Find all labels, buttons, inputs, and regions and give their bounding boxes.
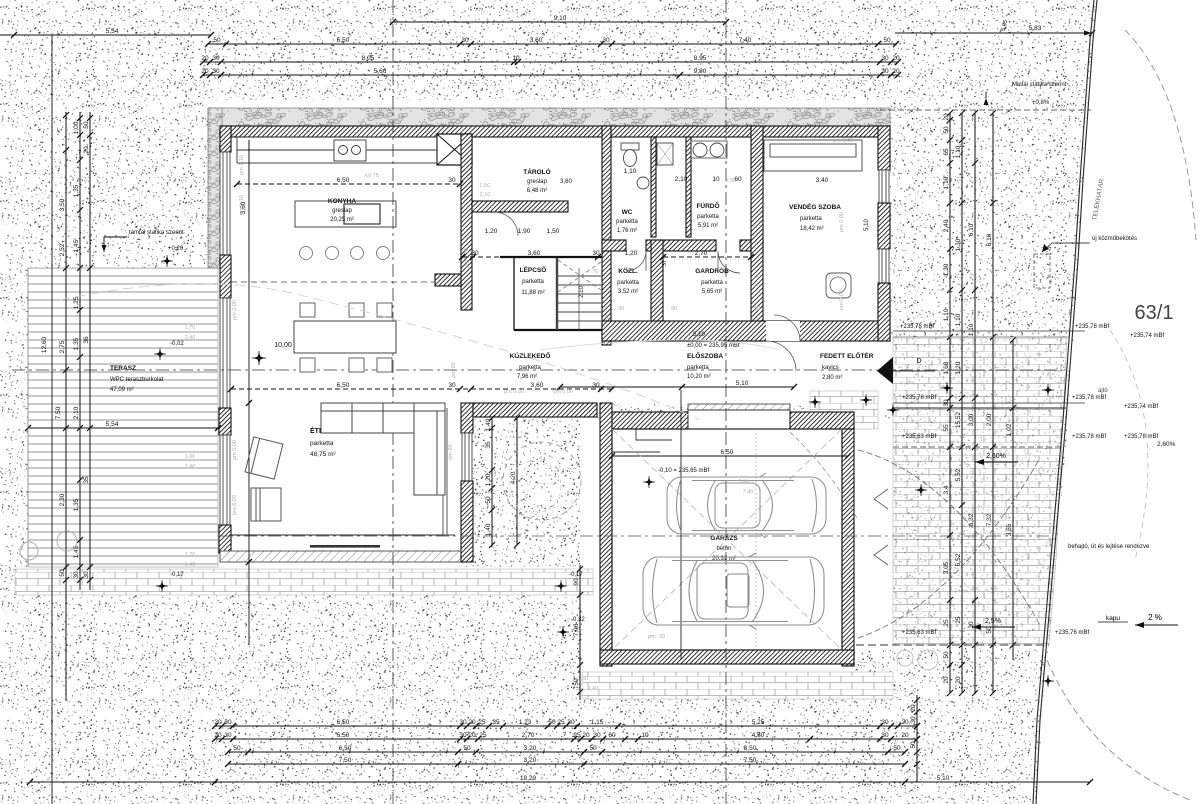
svg-text:60: 60 — [608, 732, 616, 739]
svg-text:+235,78 mBf: +235,78 mBf — [1072, 434, 1107, 440]
svg-text:pm 1,40: pm 1,40 — [833, 138, 853, 144]
svg-text:3,60: 3,60 — [560, 179, 572, 185]
svg-text:parketta: parketta — [687, 365, 709, 371]
svg-text:10: 10 — [712, 176, 720, 183]
svg-text:2,10: 2,10 — [73, 406, 80, 419]
east wall lower — [878, 283, 890, 341]
svg-text:11,88 m²: 11,88 m² — [521, 290, 544, 296]
property line — [1033, 0, 1097, 804]
svg-text:2,40: 2,40 — [185, 464, 196, 470]
svg-text:1,40: 1,40 — [485, 523, 492, 536]
north stone band — [208, 108, 890, 126]
svg-text:5,10: 5,10 — [736, 380, 749, 387]
courtyard chain1 — [485, 415, 495, 548]
right chain x1013 — [1006, 337, 1016, 660]
svg-text:3,60: 3,60 — [530, 37, 543, 44]
svg-text:6,48 m²: 6,48 m² — [527, 188, 547, 194]
svg-text:20: 20 — [201, 68, 209, 75]
svg-text:20: 20 — [910, 704, 917, 712]
svg-text:1,25: 1,25 — [73, 296, 80, 309]
svg-text:20: 20 — [955, 676, 962, 684]
svg-text:pm 0,00: pm 0,00 — [839, 212, 845, 232]
svg-text:kavics: kavics — [822, 365, 839, 371]
svg-text:1,15: 1,15 — [591, 719, 604, 726]
svg-text:1,10: 1,10 — [943, 176, 950, 189]
svg-text:5,60: 5,60 — [374, 68, 387, 75]
kitchen island — [295, 201, 396, 227]
garage door slab — [688, 404, 790, 410]
svg-text:5,10: 5,10 — [693, 332, 705, 338]
svg-text:+235,78 mBf: +235,78 mBf — [900, 324, 935, 330]
svg-text:50: 50 — [883, 37, 891, 44]
svg-text:30: 30 — [83, 571, 90, 579]
north wall — [220, 126, 890, 137]
kitchen west counter — [248, 140, 250, 272]
left chain x80 — [73, 112, 83, 590]
svg-text:3,60: 3,60 — [528, 250, 541, 257]
svg-text:30: 30 — [448, 177, 456, 184]
stair top wall line — [500, 256, 602, 258]
wc toilet — [621, 143, 639, 167]
2% arrow bottom right — [1098, 613, 1178, 628]
shower — [657, 143, 673, 165]
svg-text:parketta: parketta — [616, 219, 638, 225]
svg-text:+235,76 mBf: +235,76 mBf — [1055, 630, 1090, 636]
left chain x66 — [59, 112, 69, 700]
svg-text:30: 30 — [459, 719, 467, 726]
svg-text:5,65 m²: 5,65 m² — [702, 289, 722, 295]
svg-text:30: 30 — [881, 732, 889, 739]
svg-text:6,10: 6,10 — [968, 223, 975, 236]
west stone band — [208, 108, 222, 268]
car 1 garage top — [667, 473, 826, 538]
svg-text:50: 50 — [548, 719, 556, 726]
svg-text:1,23: 1,23 — [519, 719, 532, 726]
svg-text:50: 50 — [943, 651, 950, 659]
svg-text:30: 30 — [910, 716, 917, 724]
svg-text:20: 20 — [214, 732, 222, 739]
svg-text:7,50: 7,50 — [744, 757, 757, 764]
stair west line — [513, 258, 515, 330]
svg-text:LÉPCSŐ: LÉPCSŐ — [520, 265, 547, 274]
svg-text:pm 0,00: pm 0,00 — [553, 389, 573, 395]
svg-text:4,80: 4,80 — [752, 732, 765, 739]
kitchen sink — [334, 140, 366, 161]
east window1 — [879, 170, 889, 203]
svg-text:pm 0,00: pm 0,00 — [839, 290, 845, 310]
svg-text:6,50: 6,50 — [337, 732, 350, 739]
svg-text:TÁROLÓ: TÁROLÓ — [523, 167, 550, 176]
terrace whiteout — [28, 268, 218, 595]
bottom dim4 — [225, 757, 908, 767]
furdo basins — [693, 143, 707, 157]
svg-text:1,00: 1,00 — [73, 121, 80, 134]
svg-text:ajtó: ajtó — [1098, 388, 1108, 394]
svg-text:2,60%: 2,60% — [1157, 441, 1176, 448]
chain x917 — [910, 695, 920, 782]
svg-text:50: 50 — [589, 745, 597, 752]
svg-text:+0,20: +0,20 — [168, 246, 184, 252]
wall taroloW — [461, 134, 472, 310]
svg-text:30: 30 — [881, 68, 889, 75]
dim 9,10 — [390, 15, 729, 25]
chimney X box — [437, 134, 472, 165]
svg-text:kapu: kapu — [1106, 615, 1120, 622]
svg-text:2 %: 2 % — [1148, 613, 1162, 622]
svg-text:30: 30 — [448, 382, 456, 389]
contour curves gray — [60, 284, 700, 420]
top dim line3 — [200, 68, 901, 78]
svg-text:2,80 m²: 2,80 m² — [822, 375, 842, 381]
svg-text:7,96 m²: 7,96 m² — [517, 374, 537, 380]
svg-text:pm 0,00: pm 0,00 — [504, 389, 524, 395]
svg-text:47,09 m²: 47,09 m² — [110, 387, 134, 393]
svg-text:parketta: parketta — [697, 214, 719, 220]
svg-text:65: 65 — [943, 148, 950, 156]
svg-text:5,10: 5,10 — [864, 219, 870, 231]
svg-text:37: 37 — [662, 260, 668, 266]
courtyard top beam — [473, 403, 597, 417]
svg-text:3,00: 3,00 — [968, 413, 975, 426]
svg-text:1,10: 1,10 — [968, 323, 975, 336]
svg-text:6,10: 6,10 — [986, 233, 993, 246]
svg-text:50: 50 — [233, 745, 241, 752]
wc block west wall — [602, 126, 611, 345]
svg-text:6,50: 6,50 — [337, 382, 350, 389]
garage width dim — [609, 449, 851, 459]
svg-text:63/1: 63/1 — [1135, 302, 1174, 324]
bottom dim2 — [212, 732, 920, 742]
svg-text:-0,02: -0,02 — [170, 341, 184, 347]
svg-text:2,5%: 2,5% — [985, 618, 1001, 625]
svg-text:10: 10 — [641, 732, 649, 739]
svg-text:25: 25 — [479, 732, 487, 739]
svg-text:-0,17: -0,17 — [569, 572, 583, 578]
svg-text:5,54: 5,54 — [106, 421, 119, 428]
svg-text:35: 35 — [485, 441, 492, 449]
svg-text:2,60%: 2,60% — [986, 453, 1006, 460]
svg-text:FÜRDŐ: FÜRDŐ — [696, 201, 719, 210]
right chain x993 — [986, 110, 996, 696]
svg-text:30: 30 — [73, 571, 80, 579]
svg-text:1,70: 1,70 — [185, 552, 196, 558]
svg-text:2,10: 2,10 — [480, 192, 491, 198]
west wall lower — [219, 408, 231, 435]
svg-text:7 db: 7 db — [743, 489, 754, 495]
svg-text:1,02: 1,02 — [1006, 423, 1013, 436]
west living wall lower — [219, 525, 231, 553]
svg-text:2,40: 2,40 — [588, 686, 599, 692]
svg-text:20: 20 — [468, 732, 476, 739]
terrace left edge line — [27, 268, 29, 567]
svg-text:pm 6,00: pm 6,00 — [232, 495, 238, 515]
west wall mid pier — [220, 255, 231, 298]
svg-text:pm -30: pm -30 — [648, 634, 665, 640]
svg-text:+235,63 mBf: +235,63 mBf — [902, 434, 937, 440]
svg-text:1,70: 1,70 — [185, 325, 196, 331]
svg-text:5,52: 5,52 — [955, 468, 962, 481]
svg-text:25: 25 — [943, 619, 950, 627]
svg-text:36: 36 — [83, 336, 90, 344]
guest chair — [826, 273, 851, 298]
wall mid horizontal (wc row / kozl row) — [602, 240, 626, 251]
svg-text:pm 90: pm 90 — [448, 444, 454, 459]
garage south wall — [600, 650, 854, 664]
svg-text:50: 50 — [213, 37, 221, 44]
driveway stipple overlay — [893, 337, 1067, 645]
axis line y536 — [220, 535, 1050, 537]
entrance triangle — [877, 357, 893, 384]
dim 5,83 top right — [895, 19, 1095, 36]
svg-text:48,75 m²: 48,75 m² — [310, 451, 336, 458]
east wall upper — [878, 126, 890, 170]
svg-text:KÖZL.: KÖZL. — [618, 266, 638, 275]
garage diagonals — [612, 429, 842, 650]
svg-text:50: 50 — [893, 745, 901, 752]
driveway turning curves — [858, 450, 1040, 638]
svg-text:30: 30 — [459, 732, 467, 739]
left chain x52 — [51, 35, 53, 804]
svg-text:pm h 10: pm h 10 — [239, 195, 245, 215]
svg-text:2,52: 2,52 — [59, 243, 66, 256]
svg-text:20: 20 — [214, 719, 222, 726]
svg-text:30: 30 — [593, 732, 601, 739]
svg-text:+235,78 mBf: +235,78 mBf — [1075, 324, 1110, 330]
garage inner lines — [612, 429, 842, 650]
armchair1 — [245, 437, 283, 479]
svg-text:GARDRÓB: GARDRÓB — [695, 266, 729, 275]
2,60% arrow — [975, 453, 1018, 465]
arrows left of driveway — [874, 489, 888, 565]
svg-text:új közműbekötés: új közműbekötés — [1092, 236, 1137, 242]
svg-text:5,83: 5,83 — [1029, 25, 1042, 32]
svg-text:30: 30 — [224, 719, 232, 726]
svg-text:9,80: 9,80 — [694, 68, 707, 75]
svg-text:1,10: 1,10 — [955, 145, 962, 158]
svg-text:kő 75: kő 75 — [365, 173, 378, 179]
living east pier — [461, 403, 473, 433]
svg-text:18,20: 18,20 — [520, 775, 537, 782]
living dim line x249 — [248, 140, 250, 645]
below garage bricks — [582, 672, 893, 699]
axis B vertical — [725, 0, 727, 804]
wall gardrob/vendeg — [751, 126, 763, 341]
svg-text:30: 30 — [881, 719, 889, 726]
svg-text:FEDETT ELŐTÉR: FEDETT ELŐTÉR — [820, 351, 874, 360]
svg-text:parketta: parketta — [617, 280, 639, 286]
chairs — [300, 303, 315, 317]
walkway band whiteout — [15, 567, 593, 595]
svg-text:6,50: 6,50 — [337, 177, 350, 184]
svg-text:VENDÉG SZOBA: VENDÉG SZOBA — [789, 202, 841, 211]
bushes — [20, 542, 38, 560]
svg-text:1,10: 1,10 — [955, 313, 962, 326]
svg-text:35: 35 — [83, 476, 90, 484]
svg-text:20: 20 — [582, 732, 590, 739]
svg-text:30: 30 — [212, 68, 220, 75]
svg-text:greslap: greslap — [527, 179, 547, 185]
svg-text:2,40: 2,40 — [943, 219, 950, 232]
svg-text:50: 50 — [943, 126, 950, 134]
driveway horizontals — [893, 407, 1066, 409]
dashed curve right — [1125, 30, 1196, 240]
bottom dim total — [27, 775, 1093, 785]
stair dim — [459, 250, 602, 260]
east window2 — [879, 249, 889, 283]
wc basin — [637, 177, 649, 189]
svg-text:18,42 m²: 18,42 m² — [800, 226, 824, 232]
left chain x90 — [83, 112, 93, 590]
stools — [300, 247, 313, 260]
svg-text:+235,78 mBf: +235,78 mBf — [902, 395, 937, 401]
wall kozl/gardrob — [651, 240, 663, 341]
svg-text:55: 55 — [943, 424, 950, 432]
bottom dim1 — [212, 719, 920, 729]
svg-text:90: 90 — [618, 306, 624, 312]
svg-text:parketta: parketta — [701, 280, 723, 286]
svg-text:5,54: 5,54 — [106, 28, 119, 35]
svg-text:parketta: parketta — [800, 216, 822, 222]
axis A vertical — [392, 0, 394, 804]
svg-text:8,95: 8,95 — [694, 55, 707, 62]
svg-text:10,00: 10,00 — [274, 342, 292, 349]
svg-text:1,10: 1,10 — [624, 168, 637, 175]
svg-text:-0,17: -0,17 — [170, 572, 184, 578]
west wall window2 — [220, 298, 230, 408]
svg-text:30: 30 — [592, 250, 600, 257]
svg-text:20: 20 — [201, 55, 209, 62]
svg-text:D: D — [916, 358, 921, 365]
svg-text:-0,10 = 235,65 mBf: -0,10 = 235,65 mBf — [658, 468, 710, 474]
svg-text:greslap: greslap — [332, 208, 352, 214]
right chain x950 — [943, 110, 953, 696]
svg-text:1,00: 1,00 — [185, 454, 196, 460]
east wall mid — [878, 203, 890, 249]
svg-text:5,25: 5,25 — [752, 719, 765, 726]
svg-text:20: 20 — [943, 113, 950, 121]
svg-text:parketta: parketta — [310, 440, 334, 447]
svg-text:7,40: 7,40 — [739, 37, 752, 44]
svg-text:2,30: 2,30 — [59, 493, 66, 506]
svg-text:25: 25 — [557, 719, 565, 726]
svg-text:90: 90 — [754, 306, 760, 312]
garage door recess — [688, 410, 790, 429]
sofa L — [321, 403, 445, 495]
bottom dim3 — [225, 745, 908, 755]
svg-text:50: 50 — [910, 741, 917, 749]
top dim line1 — [205, 37, 899, 47]
svg-text:1,35: 1,35 — [73, 184, 80, 197]
svg-text:3,4: 3,4 — [943, 485, 950, 494]
svg-text:20: 20 — [468, 719, 476, 726]
svg-text:8,50: 8,50 — [744, 745, 757, 752]
kitchen low wall stub — [435, 274, 461, 286]
svg-text:5,10: 5,10 — [937, 775, 950, 782]
svg-text:2,00: 2,00 — [986, 413, 993, 426]
svg-text:2,70: 2,70 — [522, 732, 535, 739]
walkway bricks — [15, 569, 593, 595]
svg-text:1,20: 1,20 — [955, 361, 962, 374]
guest bed — [764, 140, 862, 171]
stair bottom band — [514, 329, 611, 331]
svg-text:20: 20 — [943, 676, 950, 684]
svg-text:30: 30 — [881, 55, 889, 62]
svg-text:WPC teraszburkolat: WPC teraszburkolat — [110, 377, 164, 383]
svg-text:3C: 3C — [930, 586, 936, 593]
terrace dim — [25, 421, 221, 431]
svg-text:1,50: 1,50 — [547, 228, 560, 235]
garage east wall — [842, 429, 854, 666]
dining table — [294, 321, 396, 353]
svg-text:6,50: 6,50 — [721, 449, 734, 456]
svg-text:3,20: 3,20 — [524, 757, 537, 764]
courtyard stipple — [473, 418, 580, 567]
svg-text:3,50: 3,50 — [59, 198, 66, 211]
svg-text:7,32: 7,32 — [986, 513, 993, 526]
svg-text:5,52: 5,52 — [955, 553, 962, 566]
kitchen counter north — [237, 137, 437, 163]
terrace decking — [28, 268, 218, 567]
svg-text:76: 76 — [592, 269, 598, 275]
svg-text:1,76 m²: 1,76 m² — [617, 228, 637, 234]
svg-text:3,05: 3,05 — [943, 561, 950, 574]
chain x580 — [573, 565, 583, 700]
svg-text:pm 1,10: pm 1,10 — [239, 155, 245, 175]
garage north wall right jamb — [790, 412, 854, 429]
courtyard chain2 — [510, 415, 520, 548]
svg-text:50: 50 — [59, 569, 66, 577]
2,5% arrow — [972, 618, 1015, 630]
svg-text:25: 25 — [478, 719, 486, 726]
svg-text:2,70: 2,70 — [695, 250, 708, 257]
svg-text:+235,78 mBf: +235,78 mBf — [1072, 395, 1107, 401]
kitchen bottom dash — [231, 281, 435, 283]
svg-text:15,52: 15,52 — [955, 411, 962, 428]
svg-text:+0,8%: +0,8% — [1032, 100, 1050, 106]
svg-text:2,75: 2,75 — [59, 340, 66, 353]
svg-text:1,20: 1,20 — [485, 228, 498, 235]
svg-text:parketta: parketta — [522, 279, 544, 285]
driveway whiteout — [893, 337, 1070, 648]
svg-text:20,25 m²: 20,25 m² — [330, 217, 354, 223]
gardrob dim — [660, 250, 754, 260]
step lines nw garage — [612, 429, 672, 452]
svg-text:pm 0,00: pm 0,00 — [232, 300, 238, 320]
garage north wall left jamb — [612, 412, 688, 429]
svg-text:25: 25 — [955, 616, 962, 624]
svg-text:±0,00 = 235,95 mBf: ±0,00 = 235,95 mBf — [687, 343, 740, 349]
svg-text:1,45: 1,45 — [73, 239, 80, 252]
svg-text:1,30: 1,30 — [943, 263, 950, 276]
driveway bricks — [893, 337, 1067, 645]
fedett eloter brick patch — [810, 391, 878, 429]
svg-text:pm 0,00: pm 0,00 — [232, 440, 238, 460]
svg-text:1,90: 1,90 — [518, 228, 531, 235]
svg-text:1,68: 1,68 — [943, 361, 950, 374]
svg-text:6,50: 6,50 — [339, 745, 352, 752]
svg-text:7,06: 7,06 — [573, 623, 580, 636]
svg-text:2,50: 2,50 — [726, 178, 737, 184]
svg-text:6,32: 6,32 — [968, 513, 975, 526]
svg-text:30: 30 — [224, 732, 232, 739]
svg-text:20: 20 — [901, 719, 909, 726]
tarolo south wall — [472, 201, 568, 212]
svg-text:1,50: 1,50 — [578, 676, 589, 682]
svg-text:-0,32: -0,32 — [571, 617, 585, 623]
svg-text:ELŐSZOBA: ELŐSZOBA — [687, 351, 723, 360]
corridor dim — [228, 382, 615, 392]
svg-text:támfal statika szerint: támfal statika szerint — [129, 230, 184, 236]
